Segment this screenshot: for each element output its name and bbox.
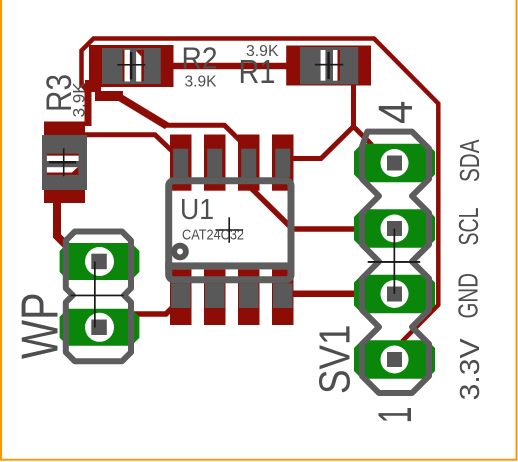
svg-text:R2: R2 bbox=[182, 41, 218, 76]
svg-text:WP: WP bbox=[12, 293, 70, 360]
svg-text:3.3V: 3.3V bbox=[454, 338, 485, 400]
svg-text:CAT24C32: CAT24C32 bbox=[182, 227, 244, 244]
svg-text:1: 1 bbox=[368, 407, 421, 424]
svg-text:SDA: SDA bbox=[454, 139, 485, 182]
svg-text:SCL: SCL bbox=[453, 208, 484, 246]
svg-text:R1: R1 bbox=[239, 53, 276, 90]
svg-text:4: 4 bbox=[370, 101, 423, 124]
svg-text:3.9K: 3.9K bbox=[185, 73, 218, 90]
svg-text:U1: U1 bbox=[180, 194, 214, 226]
svg-text:SV1: SV1 bbox=[311, 325, 360, 395]
svg-text:3.9K: 3.9K bbox=[70, 82, 89, 118]
svg-text:GND: GND bbox=[453, 273, 484, 319]
